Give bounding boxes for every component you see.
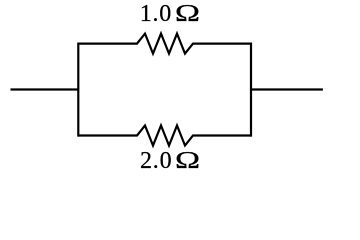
wire right lead <box>251 88 323 90</box>
wire left junction vertical <box>77 43 79 137</box>
label 1.0 ohm value for R1 <box>140 1 200 27</box>
svg-text:1.0: 1.0 <box>140 1 172 27</box>
wire left lead <box>11 88 79 90</box>
resistor R2 (2.0 ohm, bottom branch with wires) <box>78 126 251 146</box>
svg-text:Ω: Ω <box>175 148 200 174</box>
svg-text:2.0: 2.0 <box>140 148 172 174</box>
resistor R1 (1.0 ohm, top branch with wires) <box>78 34 251 54</box>
svg-text:Ω: Ω <box>175 1 200 27</box>
wire right junction vertical <box>250 43 252 137</box>
label 2.0 ohm value for R2 <box>140 148 200 174</box>
